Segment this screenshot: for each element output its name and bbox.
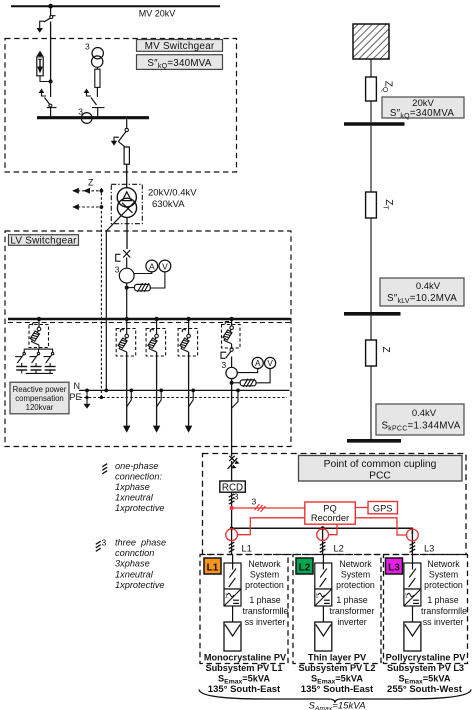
svg-text:1xphase: 1xphase — [115, 482, 150, 492]
svg-text:transformer: transformer — [330, 606, 375, 616]
svg-text:transformlle: transformlle — [421, 606, 467, 616]
svg-text:L1: L1 — [207, 562, 219, 573]
svg-text:1xneutral: 1xneutral — [115, 569, 154, 579]
svg-text:3: 3 — [115, 265, 120, 275]
svg-text:System: System — [429, 570, 458, 580]
svg-text:PCC: PCC — [369, 471, 391, 482]
svg-text:Z: Z — [88, 178, 94, 188]
svg-text:0.4kV: 0.4kV — [412, 408, 437, 419]
svg-text:3: 3 — [85, 42, 90, 52]
svg-text:System: System — [250, 570, 279, 580]
svg-text:LV Switchgear: LV Switchgear — [10, 236, 77, 247]
svg-text:MV 20kV: MV 20kV — [139, 9, 176, 19]
svg-text:Recorder: Recorder — [311, 513, 349, 523]
svg-text:135° South-East: 135° South-East — [301, 684, 374, 695]
svg-text:PQ: PQ — [323, 504, 336, 514]
svg-text:3: 3 — [252, 497, 257, 507]
svg-text:protection: protection — [245, 580, 284, 590]
svg-text:V: V — [267, 359, 273, 368]
svg-text:L3: L3 — [388, 562, 400, 573]
svg-text:ZQ: ZQ — [381, 81, 394, 93]
svg-text:L3: L3 — [424, 544, 434, 554]
svg-text:three phase: three phase — [115, 538, 166, 548]
svg-text:PE: PE — [70, 392, 82, 402]
svg-text:L2: L2 — [299, 562, 311, 573]
svg-text:connction: connction — [115, 548, 154, 558]
svg-text:Network: Network — [248, 559, 281, 569]
svg-text:S″kQ=340MVA: S″kQ=340MVA — [390, 108, 455, 120]
svg-text:Network: Network — [339, 559, 372, 569]
svg-text:1 phase: 1 phase — [427, 595, 458, 605]
svg-text:ZT: ZT — [382, 199, 395, 210]
svg-text:L1: L1 — [242, 544, 252, 554]
svg-text:Point of common cupling: Point of common cupling — [324, 459, 437, 470]
svg-text:A: A — [149, 261, 155, 271]
svg-text:S″kQ=340MVA: S″kQ=340MVA — [147, 58, 212, 70]
svg-text:1xprotective: 1xprotective — [115, 580, 165, 590]
svg-text:compensation: compensation — [15, 394, 64, 403]
svg-text:Monocrystaline PV: Monocrystaline PV — [204, 652, 287, 662]
svg-text:A: A — [255, 359, 261, 368]
svg-text:ss inverter: ss inverter — [423, 617, 464, 627]
svg-text:N: N — [74, 381, 81, 391]
svg-text:3: 3 — [102, 538, 107, 548]
svg-text:Subsystem PV L1: Subsystem PV L1 — [205, 663, 282, 673]
svg-text:System: System — [341, 570, 370, 580]
svg-text:1 phase: 1 phase — [249, 595, 280, 605]
svg-text:ss inverter: ss inverter — [245, 617, 286, 627]
svg-text:inverter: inverter — [337, 617, 366, 627]
svg-text:L2: L2 — [334, 544, 344, 554]
svg-text:MV Switchgear: MV Switchgear — [145, 41, 215, 52]
svg-text:transformlle: transformlle — [243, 606, 289, 616]
svg-text:Z: Z — [380, 346, 391, 352]
svg-text:Reactive power: Reactive power — [13, 385, 67, 394]
svg-text:Network: Network — [427, 559, 460, 569]
svg-text:120kvar: 120kvar — [26, 403, 54, 412]
svg-text:protection: protection — [424, 580, 463, 590]
svg-text:3: 3 — [234, 492, 239, 502]
svg-text:one-phase: one-phase — [115, 461, 158, 471]
svg-text:135° South-East: 135° South-East — [208, 684, 281, 695]
svg-text:255° South-West: 255° South-West — [387, 684, 463, 695]
svg-text:SAmax=15kVA: SAmax=15kVA — [308, 701, 365, 710]
svg-text:Pollycrystaline PV: Pollycrystaline PV — [386, 652, 467, 662]
svg-text:0.4kV: 0.4kV — [416, 281, 441, 292]
svg-text:630kVA: 630kVA — [152, 199, 185, 210]
svg-text:3: 3 — [222, 360, 227, 370]
svg-text:20kV/0.4kV: 20kV/0.4kV — [148, 188, 197, 199]
svg-text:Thin layer PV: Thin layer PV — [308, 652, 367, 662]
svg-text:1xneutral: 1xneutral — [115, 493, 154, 503]
svg-text:connection:: connection: — [115, 471, 162, 481]
svg-text:Subsystem PV L2: Subsystem PV L2 — [298, 663, 375, 673]
svg-text:1xprotective: 1xprotective — [115, 503, 165, 513]
svg-text:RCD: RCD — [222, 482, 243, 493]
svg-text:GPS: GPS — [373, 503, 393, 513]
svg-text:V: V — [162, 261, 168, 271]
svg-text:Subsystem PV L3: Subsystem PV L3 — [387, 663, 464, 673]
svg-text:protection: protection — [336, 580, 375, 590]
svg-text:3xphase: 3xphase — [115, 559, 150, 569]
svg-text:1 phase: 1 phase — [336, 595, 367, 605]
